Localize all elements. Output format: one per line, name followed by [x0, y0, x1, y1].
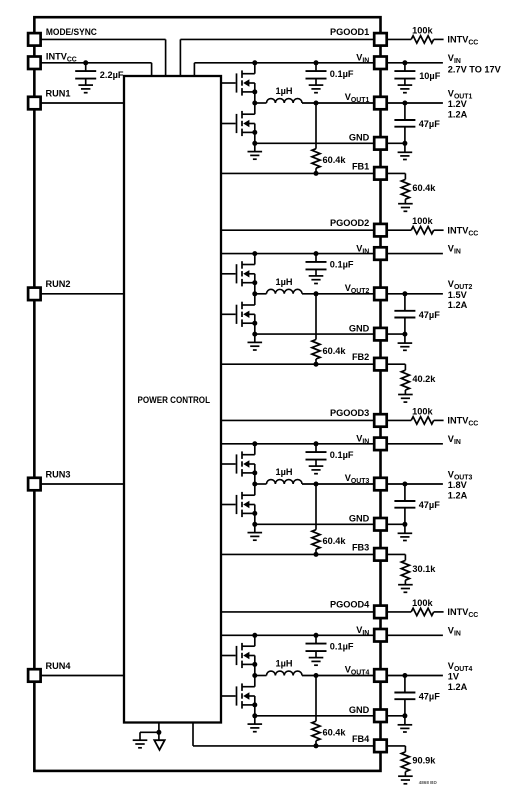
svg-text:1.2A: 1.2A [448, 682, 468, 692]
svg-text:0.1µF: 0.1µF [330, 641, 354, 651]
svg-text:60.4k: 60.4k [323, 728, 347, 738]
svg-text:RUN4: RUN4 [46, 661, 72, 671]
svg-text:100k: 100k [412, 598, 433, 608]
svg-text:90.9k: 90.9k [412, 756, 436, 766]
svg-text:47µF: 47µF [419, 310, 441, 320]
svg-text:47µF: 47µF [419, 500, 441, 510]
svg-text:PGOOD1: PGOOD1 [330, 27, 369, 37]
svg-text:1µH: 1µH [275, 86, 292, 96]
svg-text:47µF: 47µF [419, 119, 441, 129]
svg-text:10µF: 10µF [419, 71, 441, 81]
svg-text:GND: GND [349, 323, 370, 333]
svg-text:1µH: 1µH [275, 467, 292, 477]
svg-text:RUN3: RUN3 [46, 469, 71, 479]
svg-text:GND: GND [349, 705, 370, 715]
svg-text:60.4k: 60.4k [323, 155, 347, 165]
svg-text:PGOOD3: PGOOD3 [330, 408, 369, 418]
svg-text:40.2k: 40.2k [412, 374, 436, 384]
svg-text:1µH: 1µH [275, 659, 292, 669]
svg-text:2.2µF: 2.2µF [100, 70, 124, 80]
svg-text:RUN2: RUN2 [46, 279, 71, 289]
svg-text:1.8V: 1.8V [448, 480, 468, 490]
svg-text:4868 BD: 4868 BD [419, 780, 438, 785]
svg-text:1.2A: 1.2A [448, 109, 468, 119]
svg-text:1V: 1V [448, 672, 460, 682]
svg-text:60.4k: 60.4k [323, 536, 347, 546]
svg-text:1.2A: 1.2A [448, 490, 468, 500]
svg-text:47µF: 47µF [419, 692, 441, 702]
svg-text:1.5V: 1.5V [448, 290, 468, 300]
svg-text:60.4k: 60.4k [323, 346, 347, 356]
svg-text:30.1k: 30.1k [412, 564, 436, 574]
svg-text:1µH: 1µH [275, 277, 292, 287]
svg-text:FB4: FB4 [352, 734, 370, 744]
svg-text:0.1µF: 0.1µF [330, 450, 354, 460]
svg-text:100k: 100k [412, 406, 433, 416]
svg-text:FB3: FB3 [352, 542, 369, 552]
svg-text:RUN1: RUN1 [46, 88, 71, 98]
svg-text:GND: GND [349, 133, 370, 143]
svg-text:FB1: FB1 [352, 161, 369, 171]
svg-text:1.2V: 1.2V [448, 99, 468, 109]
svg-text:0.1µF: 0.1µF [330, 69, 354, 79]
svg-text:PGOOD4: PGOOD4 [330, 600, 370, 610]
svg-text:1.2A: 1.2A [448, 300, 468, 310]
svg-text:100k: 100k [412, 25, 433, 35]
svg-text:2.7V TO 17V: 2.7V TO 17V [448, 65, 502, 75]
svg-text:FB2: FB2 [352, 352, 369, 362]
svg-text:100k: 100k [412, 216, 433, 226]
svg-text:GND: GND [349, 514, 370, 524]
svg-text:60.4k: 60.4k [412, 183, 436, 193]
svg-text:MODE/SYNC: MODE/SYNC [46, 27, 97, 37]
svg-text:POWER CONTROL: POWER CONTROL [138, 395, 211, 405]
svg-text:PGOOD2: PGOOD2 [330, 218, 369, 228]
svg-text:0.1µF: 0.1µF [330, 260, 354, 270]
